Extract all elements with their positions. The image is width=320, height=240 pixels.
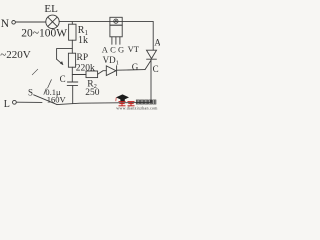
terminal L xyxy=(13,100,17,104)
svg-text:N: N xyxy=(1,18,10,30)
potentiometer RP wiper loop xyxy=(57,49,73,60)
svg-text:1k: 1k xyxy=(78,35,88,46)
wire right edge down to VT anode xyxy=(152,22,154,51)
svg-text:20~100W: 20~100W xyxy=(21,27,67,39)
capacitor C xyxy=(67,81,77,83)
terminal N xyxy=(12,21,16,25)
svg-text:VT: VT xyxy=(128,44,140,54)
wire RP to node xyxy=(71,67,73,82)
svg-text:S: S xyxy=(28,88,33,98)
thyristor VT xyxy=(147,50,157,58)
wire N to lamp xyxy=(16,21,46,23)
svg-text:C: C xyxy=(153,64,159,74)
wire VT cathode down xyxy=(150,59,152,102)
svg-text:250: 250 xyxy=(85,88,100,98)
wiper arrowhead xyxy=(60,61,64,65)
wire L to switch xyxy=(16,101,42,103)
svg-text:A: A xyxy=(154,37,160,47)
watermark red characters xyxy=(119,102,135,106)
bottom wire xyxy=(57,102,151,104)
lamp EL xyxy=(46,15,59,28)
wire lamp to top-right corner xyxy=(59,21,153,23)
svg-text:G: G xyxy=(132,62,139,72)
watermark logo mortarboard xyxy=(116,94,129,101)
resistor R2 xyxy=(86,71,98,78)
svg-text:RP: RP xyxy=(77,53,89,63)
watermark dark site name glyphs xyxy=(136,100,156,104)
wire R2 to VD1 xyxy=(98,71,107,75)
gate lead of VT xyxy=(145,60,151,69)
TO-220 package tab xyxy=(110,17,122,25)
TO-220 mounting hole xyxy=(114,19,118,23)
resistor R1 xyxy=(71,22,73,25)
svg-text:~220V: ~220V xyxy=(0,49,30,61)
svg-text:www.dianzixzhan.com: www.dianzixzhan.com xyxy=(116,105,158,110)
switch S blade xyxy=(34,95,57,105)
TO-220 legs xyxy=(111,37,113,45)
svg-text:160V: 160V xyxy=(47,94,67,104)
svg-text:C: C xyxy=(60,74,66,84)
svg-text:L: L xyxy=(4,99,10,110)
diode VD1 xyxy=(106,66,116,76)
wire VD1 to gate junction xyxy=(117,69,145,72)
svg-text:EL: EL xyxy=(44,3,58,15)
label leader marks xyxy=(48,80,52,88)
TO-220 package body xyxy=(110,25,122,37)
svg-text:220k: 220k xyxy=(76,64,95,74)
potentiometer RP body xyxy=(68,53,75,67)
svg-text:ACG: ACG xyxy=(102,44,127,54)
wire node to R2 xyxy=(72,74,86,76)
